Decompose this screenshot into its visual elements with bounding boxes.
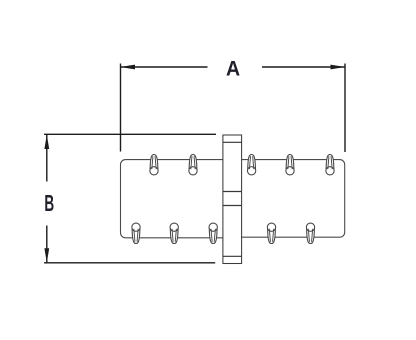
chain pin bottom 2 xyxy=(170,223,178,243)
dimension B top arrowhead xyxy=(44,135,49,150)
chain pin top 2 xyxy=(189,155,197,175)
dimension B bottom arrowhead xyxy=(44,248,49,262)
dimension B line upper segment xyxy=(46,135,48,182)
column mid band lower line xyxy=(223,205,242,207)
column top cap line xyxy=(223,141,242,143)
chain pin bottom 4 xyxy=(267,223,275,243)
svg-text:B: B xyxy=(44,190,54,216)
column mid band upper line xyxy=(223,191,242,193)
dimension A left arrowhead xyxy=(121,65,136,70)
dimension A right arrowhead xyxy=(331,65,346,70)
dimension A line left segment xyxy=(121,66,208,68)
chain pin bottom 5 xyxy=(306,223,314,243)
dimension A right extension line xyxy=(344,64,346,153)
chain pin top 5 xyxy=(326,155,334,175)
chain pin top 4 xyxy=(286,155,294,175)
dimension B line lower segment xyxy=(46,226,48,263)
left hub body xyxy=(121,160,232,238)
chain pin bottom 3 xyxy=(209,223,217,243)
dimension B top extension line xyxy=(44,133,216,135)
center sprocket column xyxy=(223,135,242,264)
right hub body xyxy=(234,160,345,238)
dimension A left extension line xyxy=(120,64,122,152)
svg-text:A: A xyxy=(226,57,240,81)
dimension A line right segment xyxy=(262,66,345,68)
column bottom cap line xyxy=(223,255,242,257)
chain pin bottom 1 xyxy=(132,223,140,243)
dimension B bottom extension line xyxy=(44,262,215,264)
chain pin top 3 xyxy=(247,155,255,175)
chain pin top 1 xyxy=(150,155,158,175)
